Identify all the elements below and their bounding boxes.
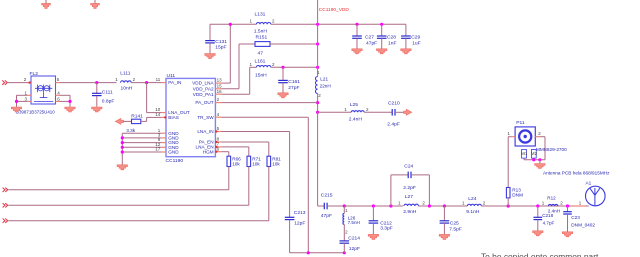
connector P11: [515, 127, 535, 146]
svg-text:22nH: 22nH: [320, 83, 331, 88]
capacitor C111: [96, 83, 98, 94]
svg-text:15nH: 15nH: [255, 72, 267, 78]
svg-text:VDD_LNA: VDD_LNA: [192, 81, 214, 86]
svg-text:B39871B3725U410: B39871B3725U410: [16, 110, 55, 115]
junction: [316, 111, 319, 114]
M2 pad: [531, 150, 536, 159]
junction: [372, 204, 375, 207]
wire: [141, 120, 147, 122]
svg-text:10k: 10k: [232, 162, 240, 167]
capacitor C218: [537, 206, 539, 217]
junction: [121, 136, 124, 139]
ground: [278, 93, 288, 98]
svg-text:PA_IN: PA_IN: [168, 80, 181, 85]
wire: [539, 160, 541, 164]
svg-text:C23: C23: [571, 215, 580, 220]
svg-text:C218: C218: [542, 213, 553, 218]
ground: [65, 107, 75, 112]
inductor L111: [121, 81, 132, 83]
svg-text:3.3pF: 3.3pF: [380, 225, 393, 231]
junction: [316, 101, 319, 104]
svg-text:GND: GND: [168, 150, 179, 155]
junction: [536, 204, 539, 207]
ground: [562, 232, 572, 237]
wire HGM: [222, 151, 229, 153]
capacitor C29: [401, 35, 411, 37]
junction: [15, 100, 18, 103]
wire: [124, 120, 132, 122]
wire bottom: [290, 252, 345, 254]
wire: [69, 95, 71, 107]
ground: [377, 49, 387, 54]
junction: [532, 158, 535, 161]
inductor L25: [351, 111, 364, 113]
power symbol (cropped): [45, 0, 47, 3]
capacitor C214: [340, 240, 350, 242]
svg-text:1.5nH: 1.5nH: [254, 29, 268, 35]
svg-text:M1: M1: [521, 151, 528, 156]
pin 1 P11: [511, 136, 515, 138]
svg-text:7.5nH: 7.5nH: [348, 220, 360, 225]
svg-text:CC1190: CC1190: [166, 158, 184, 164]
wire: [60, 94, 71, 96]
svg-text:27pF: 27pF: [288, 85, 299, 91]
junction: [566, 204, 569, 207]
svg-text:2.2pF: 2.2pF: [403, 185, 416, 191]
pin 5 FL2: [56, 82, 60, 84]
pin 13: [215, 82, 221, 84]
pin 4: [215, 116, 221, 118]
SAW filter FL2: [31, 76, 56, 104]
junction: [316, 23, 319, 26]
svg-text:R141: R141: [131, 114, 143, 120]
port (PA_EN ctrl): [3, 188, 5, 192]
capacitor C161: [282, 67, 284, 80]
wire: [343, 224, 345, 241]
junction: [229, 23, 232, 26]
resistor R13: [507, 137, 509, 188]
M1 pad: [522, 150, 527, 159]
svg-text:C29: C29: [411, 34, 420, 40]
wire VDD_PA2: [222, 88, 240, 90]
svg-text:0.8pF: 0.8pF: [102, 98, 115, 104]
svg-text:2.4nH: 2.4nH: [349, 117, 363, 123]
svg-text:FL2: FL2: [30, 71, 39, 77]
pin 14 BIAS: [162, 116, 167, 118]
GND bus wire: [121, 133, 123, 164]
wire: [540, 136, 545, 138]
port arrow (bias): [115, 118, 123, 124]
svg-text:4.7pF: 4.7pF: [543, 221, 555, 226]
wire PA_EN: [222, 141, 269, 143]
wire: [271, 66, 318, 68]
svg-text:C215: C215: [321, 193, 333, 199]
power symbol (cropped): [94, 0, 96, 3]
svg-text:TR_SW: TR_SW: [197, 115, 214, 120]
wire LNA_EN: [222, 146, 249, 148]
wire: [317, 94, 319, 113]
svg-text:2.4pF: 2.4pF: [387, 122, 400, 128]
svg-text:14: 14: [155, 112, 161, 117]
svg-text:CC1190_VDD: CC1190_VDD: [319, 7, 350, 13]
junction: [343, 251, 346, 254]
svg-text:LNA_IN: LNA_IN: [197, 129, 213, 134]
inductor L131: [256, 22, 270, 24]
ground: [535, 164, 545, 169]
svg-text:DNM: DNM: [512, 193, 523, 198]
svg-text:MMB829-2700: MMB829-2700: [536, 147, 567, 152]
svg-text:L27: L27: [405, 194, 413, 200]
inductor L21: [315, 77, 317, 94]
junction: [281, 66, 284, 69]
wire VDD rail top: [210, 23, 256, 25]
ground: [11, 107, 21, 112]
svg-text:C24: C24: [404, 164, 413, 170]
capacitor C24: [407, 172, 409, 179]
capacitor C27: [355, 23, 358, 26]
pin 15: [215, 88, 221, 90]
svg-text:C213: C213: [294, 210, 306, 216]
wire: [17, 100, 28, 102]
wire: [122, 132, 161, 134]
pin 6 FL2: [56, 100, 60, 102]
wire TR_SW: [222, 116, 309, 118]
svg-text:P11: P11: [516, 120, 525, 126]
svg-text:3.3k: 3.3k: [126, 128, 136, 133]
junction: [121, 141, 124, 144]
junction: [307, 251, 310, 254]
wire VDD_PA1: [222, 93, 250, 95]
wire: [122, 137, 161, 139]
svg-text:47pF: 47pF: [366, 41, 377, 47]
wire: [122, 151, 161, 153]
wire PA_OUT: [222, 102, 318, 104]
pin 4 FL2: [56, 94, 60, 96]
svg-text:12pF: 12pF: [294, 221, 305, 227]
svg-text:10k: 10k: [252, 162, 260, 167]
svg-text:A1: A1: [586, 181, 592, 186]
wire: [507, 198, 509, 206]
pin 12 GND: [162, 146, 167, 148]
wire loop: [411, 174, 429, 176]
svg-text:12pF: 12pF: [349, 246, 360, 252]
svg-text:R151: R151: [256, 34, 268, 40]
junction: [343, 204, 346, 207]
pin 3 GND: [162, 137, 167, 139]
port (HGM ctrl): [3, 219, 5, 223]
ground: [352, 49, 362, 54]
svg-text:47: 47: [258, 50, 264, 56]
wire: [146, 83, 148, 113]
wire LNA_IN: [222, 131, 290, 133]
ground: [205, 54, 215, 59]
svg-text:L24: L24: [468, 196, 476, 202]
svg-text:R12: R12: [547, 196, 556, 201]
svg-text:13: 13: [217, 78, 223, 83]
inductor R12: [548, 204, 558, 206]
wire: [239, 43, 255, 45]
wire: [318, 111, 352, 113]
wire VDD_LNA: [222, 82, 231, 84]
wire: [419, 205, 468, 207]
pin 7: [215, 146, 221, 148]
pin 6: [215, 151, 221, 153]
svg-text:9.1nH: 9.1nH: [466, 209, 480, 215]
wire: [364, 111, 392, 113]
wire: [268, 167, 270, 221]
svg-text:C25: C25: [450, 220, 459, 226]
wire: [17, 94, 28, 96]
ground: [533, 231, 543, 236]
svg-text:PA_OUT: PA_OUT: [195, 100, 213, 105]
wire: [131, 82, 161, 84]
pin 3 FL2: [27, 100, 31, 102]
wire: [250, 66, 257, 68]
wire: [327, 205, 403, 207]
wire VDD rail: [317, 0, 319, 77]
wire: [122, 146, 161, 148]
svg-text:16: 16: [217, 89, 223, 94]
resistor R141: [132, 119, 141, 123]
pin 2: [215, 102, 221, 104]
junction node PA_IN/LNA_OUT: [145, 81, 148, 84]
pin 8: [215, 141, 221, 143]
resistor R81: [267, 156, 271, 166]
wire: [147, 116, 162, 118]
svg-text:47pF: 47pF: [321, 213, 332, 219]
wire: [270, 43, 318, 45]
wire: [481, 205, 588, 207]
svg-text:7.5pF: 7.5pF: [449, 226, 462, 232]
junction: [121, 146, 124, 149]
ground: [439, 234, 449, 239]
wire: [395, 111, 404, 113]
svg-text:C27: C27: [365, 34, 374, 40]
junction: [538, 158, 541, 161]
junction node C111: [95, 81, 98, 84]
svg-text:L21: L21: [320, 77, 328, 82]
resistor R71: [247, 156, 251, 166]
wire: [147, 112, 162, 114]
inductor L27: [404, 204, 419, 206]
wire: [523, 158, 525, 160]
wire: [271, 23, 406, 25]
svg-text:17: 17: [155, 147, 161, 152]
junction: [121, 150, 124, 153]
wire: [146, 117, 148, 121]
svg-text:M2: M2: [531, 151, 538, 156]
wire: [16, 95, 18, 107]
capacitor C25: [443, 206, 445, 221]
pin 17 GND: [162, 151, 167, 153]
svg-text:15pF: 15pF: [215, 45, 226, 51]
junction: [389, 204, 392, 207]
wire: [60, 100, 71, 102]
ground: [401, 49, 411, 54]
pin 5: [215, 131, 221, 133]
svg-text:C131: C131: [215, 39, 227, 45]
inductor L24: [467, 204, 481, 206]
wire: [508, 136, 511, 138]
IC U11 CC1190: [166, 78, 215, 156]
port arrow (PA out meas): [404, 109, 412, 115]
svg-text:1uF: 1uF: [412, 41, 420, 47]
svg-text:11: 11: [156, 77, 161, 82]
svg-text:C210: C210: [388, 100, 400, 106]
wire: [8, 204, 248, 206]
svg-text:VDD_PA1: VDD_PA1: [193, 92, 214, 97]
pin 9 GND: [162, 142, 167, 144]
wire main RF: [317, 112, 319, 206]
wire: [60, 82, 117, 84]
wire: [122, 142, 161, 144]
svg-text:15: 15: [217, 83, 223, 88]
ground: [92, 107, 102, 112]
capacitor C28: [380, 23, 383, 26]
svg-text:C161: C161: [288, 79, 300, 85]
wire cap rail: [405, 24, 407, 36]
svg-text:10k: 10k: [272, 162, 280, 167]
junction: [428, 204, 431, 207]
svg-text:C214: C214: [348, 235, 360, 241]
port RF input: [2, 80, 4, 84]
svg-text:1nF: 1nF: [388, 41, 396, 47]
capacitor C131: [209, 24, 211, 40]
ground: [368, 234, 378, 239]
svg-text:L25: L25: [350, 102, 358, 108]
capacitor C213: [285, 216, 295, 218]
svg-text:DNM_0402: DNM_0402: [571, 223, 595, 228]
port (LNA_EN ctrl): [3, 203, 5, 207]
pin 10 LNA_OUT: [162, 112, 167, 114]
pin 2 P11: [535, 136, 540, 138]
wire: [248, 167, 250, 206]
svg-text:L131: L131: [255, 12, 266, 18]
inductor L26: [343, 213, 344, 224]
wire loop: [390, 175, 392, 206]
junction: [316, 42, 319, 45]
capacitor C23: [567, 206, 569, 212]
inductor L161: [256, 66, 270, 68]
svg-text:C111: C111: [102, 90, 113, 96]
junction: [507, 204, 510, 207]
resistor R151: [255, 42, 270, 47]
svg-text:BIAS: BIAS: [168, 115, 179, 120]
pin 11 PA_IN: [162, 82, 167, 84]
svg-text:Antenna PCB hela 868/915MHz: Antenna PCB hela 868/915MHz: [543, 171, 610, 176]
resistor R66: [227, 156, 231, 166]
capacitor C212: [372, 206, 374, 221]
svg-text:L161: L161: [255, 59, 266, 65]
svg-text:HGM: HGM: [203, 149, 214, 154]
capacitor C215: [323, 203, 325, 210]
wire: [8, 189, 228, 191]
capacitor C210: [391, 109, 393, 116]
svg-text:L111: L111: [120, 70, 130, 76]
svg-text:C28: C28: [387, 34, 396, 40]
wire: [228, 167, 230, 190]
junction: [443, 204, 446, 207]
svg-text:To be copied onto common part: To be copied onto common part: [481, 252, 599, 257]
wire: [8, 220, 268, 222]
wire: [8, 82, 31, 84]
svg-text:U11: U11: [167, 73, 176, 79]
svg-text:VDD_PA2: VDD_PA2: [193, 86, 214, 91]
junction: [316, 66, 319, 69]
pin 1 FL2: [27, 94, 31, 96]
svg-text:2.9nH: 2.9nH: [403, 209, 417, 215]
ground: [117, 165, 127, 170]
pin 2 FL2: [27, 82, 31, 84]
pin 1 GND: [162, 132, 167, 134]
pin 16: [215, 93, 221, 95]
junction: [68, 100, 71, 103]
svg-text:10nH: 10nH: [121, 86, 133, 92]
